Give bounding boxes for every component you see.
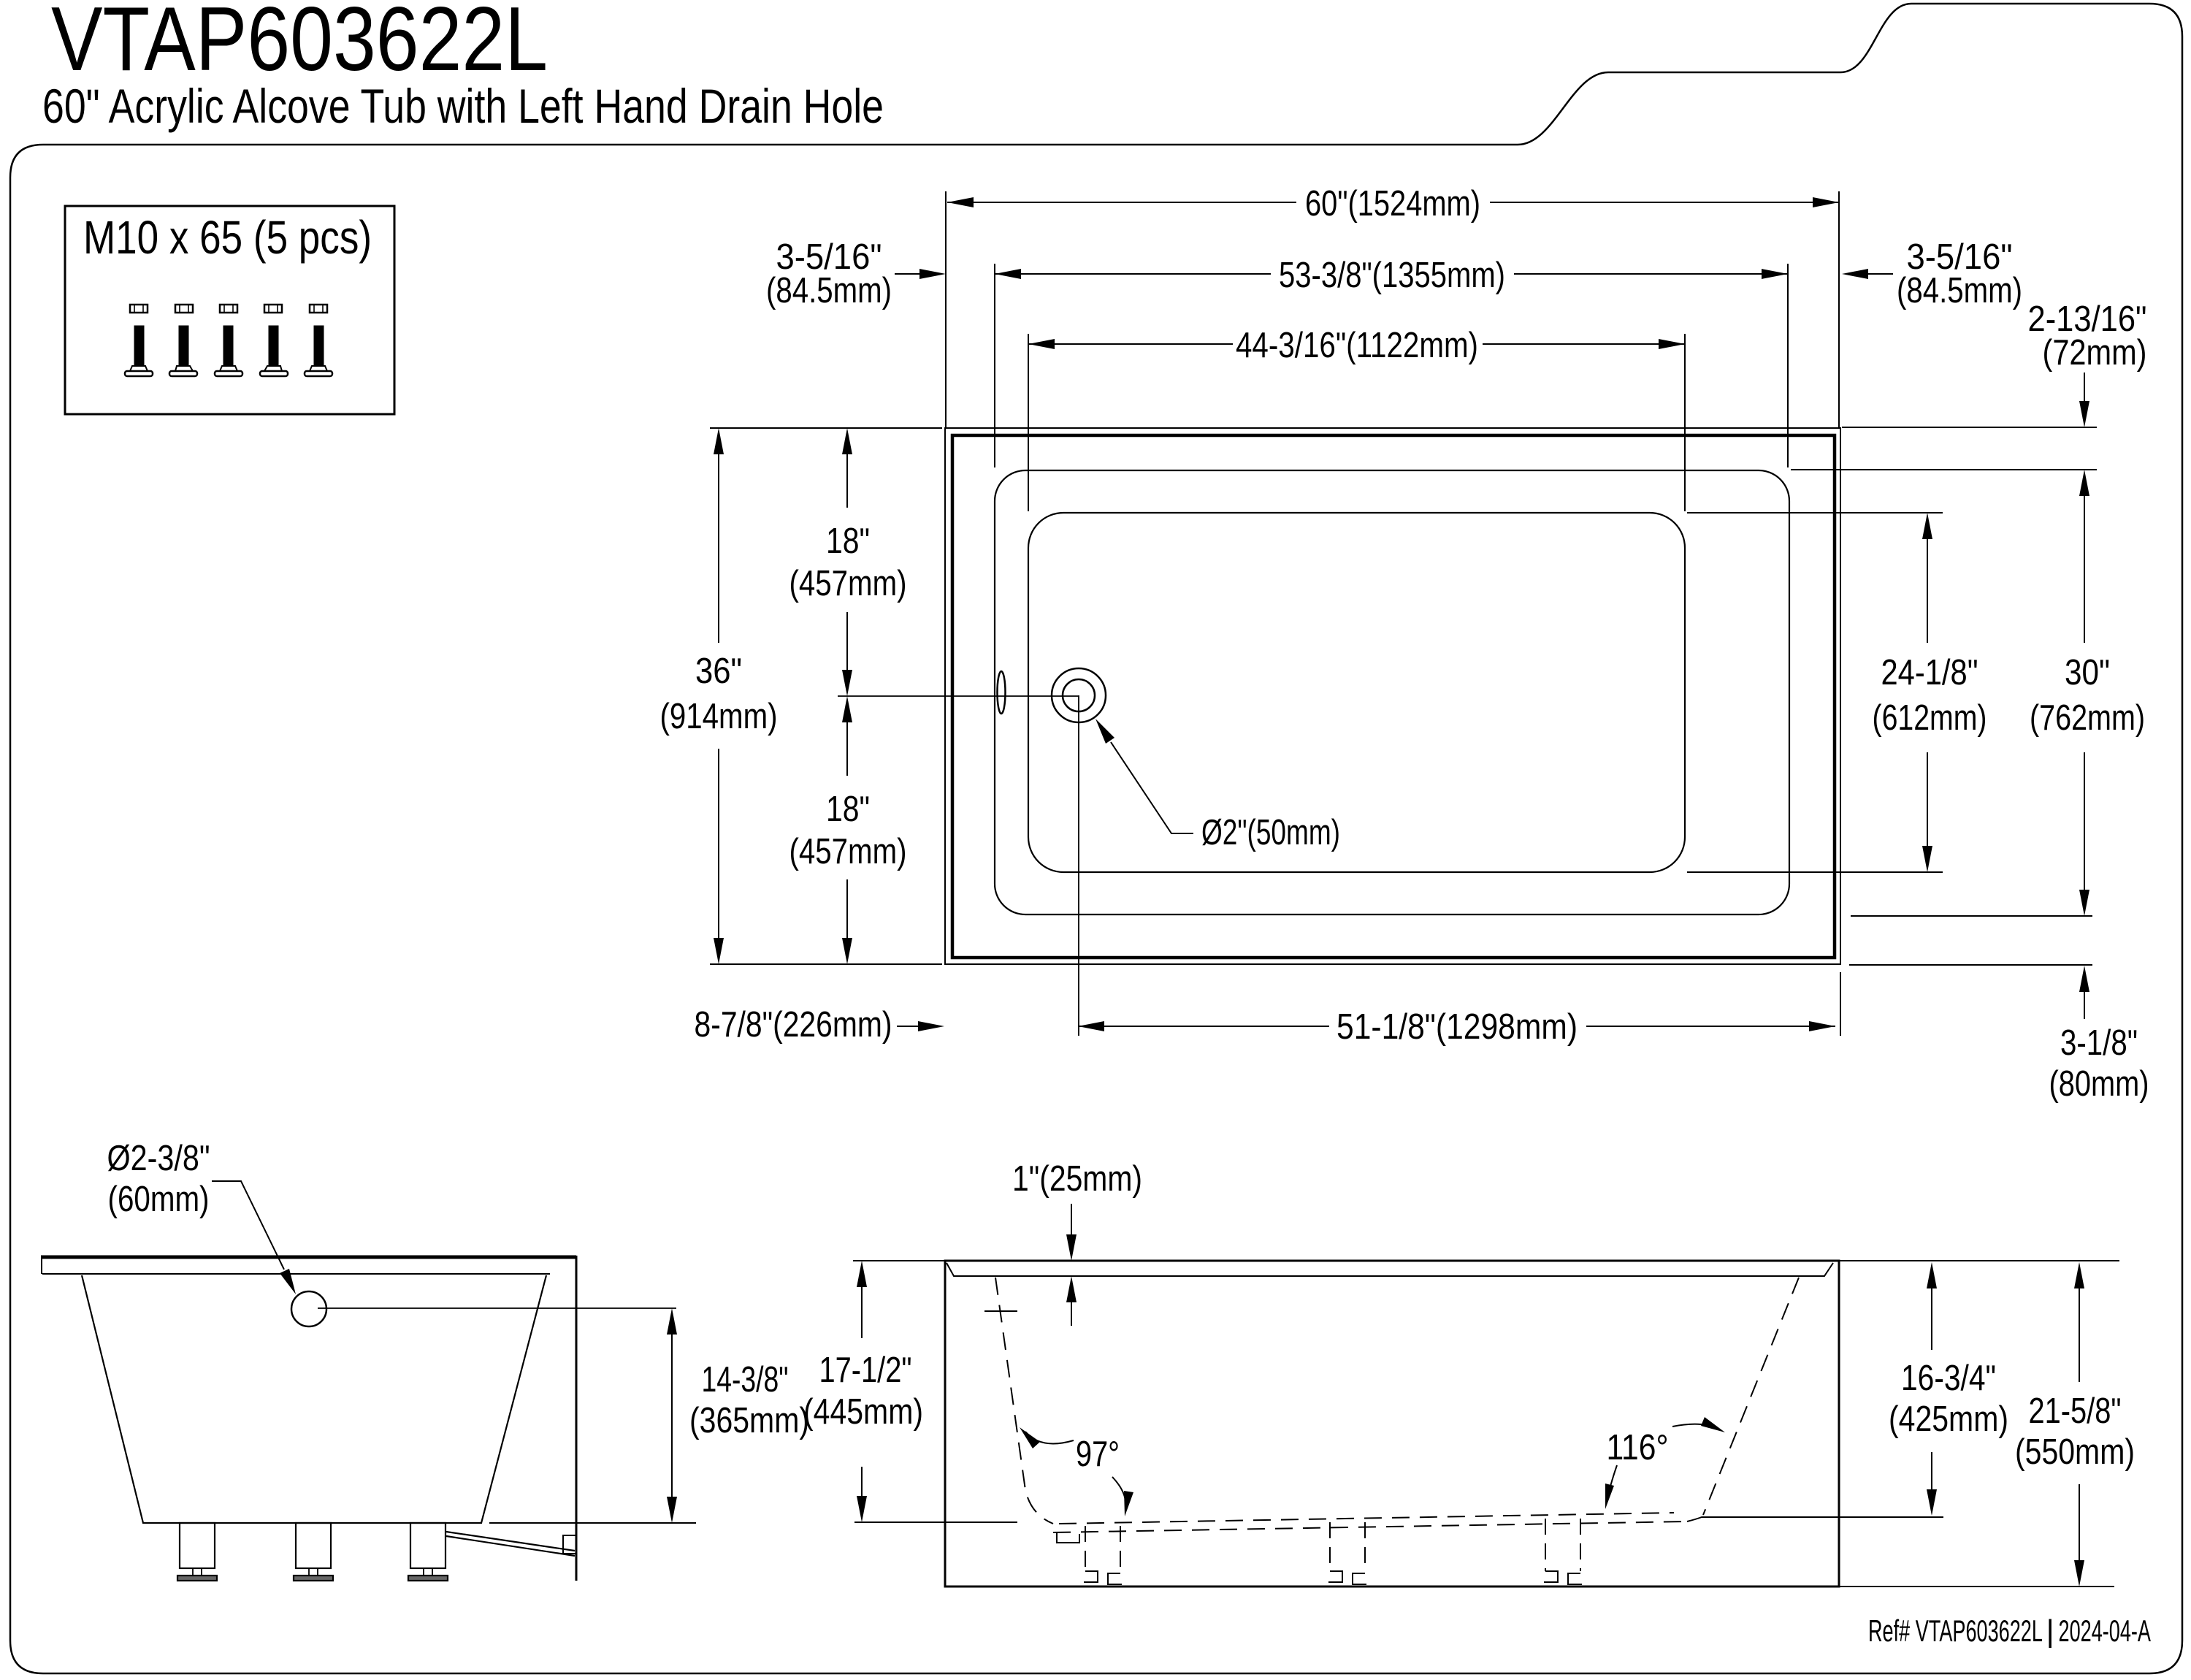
- end view: overflow hole circle: [291, 1291, 326, 1326]
- dim 60 inch extension lines: [945, 191, 947, 428]
- dim 3-1/8: [2084, 990, 2085, 1019]
- svg-text:(612mm): (612mm): [1873, 698, 1987, 738]
- overflow hole ellipse: [998, 671, 1006, 714]
- end view foot 3: [408, 1523, 448, 1581]
- svg-text:(762mm): (762mm): [2030, 698, 2145, 738]
- svg-text:24-1/8": 24-1/8": [1881, 653, 1978, 692]
- dim 44-3/16: [1028, 343, 1233, 345]
- dim 17-1/2 bottom extension: [854, 1521, 1017, 1523]
- top view: basin floor rounded rect: [1028, 513, 1685, 872]
- svg-text:44-3/16"(1122mm): 44-3/16"(1122mm): [1236, 326, 1478, 365]
- side view foot 3 (dashed): [1544, 1519, 1582, 1584]
- end view foot 2: [294, 1523, 333, 1581]
- svg-text:(72mm): (72mm): [2043, 333, 2147, 373]
- side view foot 1 (dashed): [1084, 1526, 1122, 1584]
- screw 4: [260, 305, 288, 376]
- top view: tub outer flange rect: [945, 428, 1840, 964]
- svg-text:60"(1524mm): 60"(1524mm): [1305, 184, 1480, 224]
- svg-text:Ø2"(50mm): Ø2"(50mm): [1201, 813, 1340, 852]
- drain centerline vertical (extension to 51-1/8 dim): [1078, 695, 1079, 1036]
- svg-text:(84.5mm): (84.5mm): [1897, 271, 2022, 310]
- svg-text:(457mm): (457mm): [789, 564, 907, 603]
- svg-text:97°: 97°: [1076, 1435, 1120, 1474]
- dim 3-1/8 extension line: [1849, 964, 2092, 966]
- svg-text:53-3/8"(1355mm): 53-3/8"(1355mm): [1279, 256, 1505, 295]
- svg-text:21-5/8": 21-5/8": [2029, 1391, 2122, 1431]
- side view: rim top extensions: [853, 1260, 945, 1261]
- svg-text:(445mm): (445mm): [803, 1392, 923, 1432]
- svg-text:17-1/2": 17-1/2": [819, 1351, 912, 1390]
- svg-text:116°: 116°: [1607, 1428, 1669, 1467]
- svg-text:14-3/8": 14-3/8": [702, 1360, 789, 1400]
- side view foot 2 (dashed): [1328, 1522, 1366, 1584]
- svg-text:(80mm): (80mm): [2049, 1064, 2149, 1104]
- side view: left wall (dashed): [995, 1278, 1053, 1524]
- screw 1: [125, 305, 153, 376]
- svg-text:3-1/8": 3-1/8": [2060, 1023, 2138, 1063]
- dim 17-1/2: [861, 1272, 863, 1338]
- svg-text:8-7/8"(226mm): 8-7/8"(226mm): [695, 1005, 892, 1045]
- svg-text:(550mm): (550mm): [2015, 1432, 2135, 1472]
- svg-text:1"(25mm): 1"(25mm): [1012, 1159, 1142, 1199]
- end view: mounting bracket diagonal: [446, 1532, 575, 1551]
- dim 24-1/8 extension lines: [1687, 512, 1943, 513]
- screw 3: [215, 305, 242, 376]
- dim 18 upper: [846, 438, 848, 508]
- top view: rim opening rounded rect: [995, 470, 1789, 915]
- svg-text:60" Acrylic Alcove Tub with Le: 60" Acrylic Alcove Tub with Left Hand Dr…: [42, 79, 884, 133]
- dim 51-1/8: [1078, 1026, 1329, 1027]
- dim 51-1/8 extension line right: [1840, 972, 1841, 1036]
- side view: floor upper (dashed): [1059, 1513, 1674, 1524]
- svg-text:Ø2-3/8": Ø2-3/8": [107, 1139, 210, 1178]
- svg-text:51-1/8"(1298mm): 51-1/8"(1298mm): [1337, 1007, 1578, 1047]
- overflow leader: [212, 1181, 284, 1269]
- side view: rim underside line: [947, 1263, 1833, 1276]
- dim 14-3/8 extension: [489, 1522, 696, 1524]
- side view: right wall (dashed): [1703, 1278, 1799, 1515]
- side view: apron rectangle: [945, 1261, 1839, 1587]
- svg-text:18": 18": [826, 522, 870, 561]
- dim 18 lower: [846, 706, 848, 776]
- dim 16-3/4: [1931, 1274, 1932, 1350]
- dim 53-3/8: [995, 273, 1271, 275]
- dim 36 extension lines: [710, 427, 942, 429]
- svg-text:16-3/4": 16-3/4": [1901, 1359, 1996, 1398]
- hardware box: [65, 206, 394, 414]
- side view: drain recess: [1057, 1532, 1079, 1543]
- svg-text:Ref# VTAP603622L | 2024-04-A: Ref# VTAP603622L | 2024-04-A: [1868, 1614, 2151, 1649]
- overflow height tick: [984, 1310, 1017, 1312]
- drain centerline horizontal: [838, 695, 1079, 697]
- svg-text:(425mm): (425mm): [1889, 1400, 2008, 1439]
- dim 2-13/16 extension lines: [1842, 427, 2097, 428]
- svg-text:18": 18": [826, 790, 870, 829]
- side view: floor lower (dashed): [1053, 1521, 1687, 1532]
- end view: bracket block: [563, 1535, 576, 1554]
- drain leader line: [1111, 742, 1193, 833]
- svg-text:36": 36": [695, 652, 742, 691]
- dim 53-3/8 extension lines: [994, 264, 995, 467]
- dim 21-5/8: [2079, 1274, 2080, 1382]
- dim 14-3/8: [671, 1318, 673, 1512]
- svg-text:(365mm): (365mm): [689, 1401, 809, 1440]
- side view: bottom-right solid line / 16-3/4 extension: [1687, 1517, 1943, 1521]
- dim 60 inch: [947, 202, 1296, 203]
- top view: tub rim rect (thick): [952, 435, 1835, 958]
- end view: rim top slab: [41, 1256, 576, 1259]
- svg-text:(84.5mm): (84.5mm): [766, 271, 892, 310]
- end view: wall flange edge: [576, 1256, 578, 1581]
- svg-text:(457mm): (457mm): [789, 832, 907, 871]
- screw 2: [169, 305, 197, 376]
- end view foot 1: [177, 1523, 217, 1581]
- svg-text:(60mm): (60mm): [108, 1180, 210, 1219]
- dim 24-1/8: [1927, 516, 1928, 643]
- svg-text:(914mm): (914mm): [660, 697, 778, 736]
- drain hole inner circle: [1063, 679, 1095, 711]
- drain hole outer circle: [1052, 668, 1106, 722]
- side view: apron bottom extension: [1839, 1586, 2114, 1587]
- dim 36 inch: [718, 438, 719, 643]
- svg-text:VTAP603622L: VTAP603622L: [51, 0, 548, 90]
- svg-text:M10 x 65 (5 pcs): M10 x 65 (5 pcs): [83, 211, 372, 264]
- dim 30 inch: [2084, 474, 2085, 643]
- svg-text:30": 30": [2065, 653, 2110, 692]
- end view: overflow centerline: [318, 1307, 676, 1309]
- dim 44-3/16 extension lines: [1028, 334, 1029, 511]
- screw 5: [305, 305, 332, 376]
- end view: body outline: [82, 1275, 546, 1523]
